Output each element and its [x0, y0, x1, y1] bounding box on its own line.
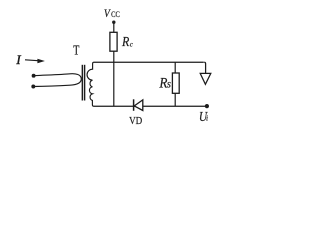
wire Rs top lead — [174, 62, 176, 73]
diode VD (cathode bar) — [133, 99, 135, 111]
wire right corner + stem to ground triangle — [204, 62, 205, 73]
svg-text:CC: CC — [111, 9, 120, 19]
resistor Rs — [172, 73, 179, 93]
node output dot — [205, 104, 209, 108]
ground (open triangle) — [200, 73, 211, 84]
svg-text:i: i — [206, 113, 208, 122]
svg-text:R: R — [121, 34, 130, 49]
arrow (current direction) — [25, 59, 45, 63]
diode VD (triangle, pointing left) — [134, 100, 143, 111]
svg-text:VD: VD — [129, 115, 142, 127]
node dot primary terminal top — [32, 74, 36, 78]
svg-text:Rs: Rs — [158, 75, 170, 91]
svg-text:I: I — [15, 53, 21, 67]
wire top rail — [94, 61, 204, 63]
transformer T secondary winding (4 bumps) — [87, 62, 94, 106]
transformer core bar right — [84, 65, 86, 101]
svg-text:T: T — [73, 43, 79, 58]
node Vcc dot — [112, 21, 115, 24]
wire primary single-turn hairpin loop — [33, 74, 81, 87]
transformer core bar left — [81, 65, 83, 101]
wire bottom rail — [94, 105, 207, 107]
resistor R — [110, 32, 117, 51]
svg-text:c: c — [130, 42, 133, 49]
wire Rs bottom lead — [174, 93, 176, 106]
wire R lead down to bottom rail (crosses top rail, no junction) — [113, 51, 115, 106]
node dot primary terminal bottom — [31, 85, 35, 89]
wire Vcc to R — [113, 22, 115, 32]
